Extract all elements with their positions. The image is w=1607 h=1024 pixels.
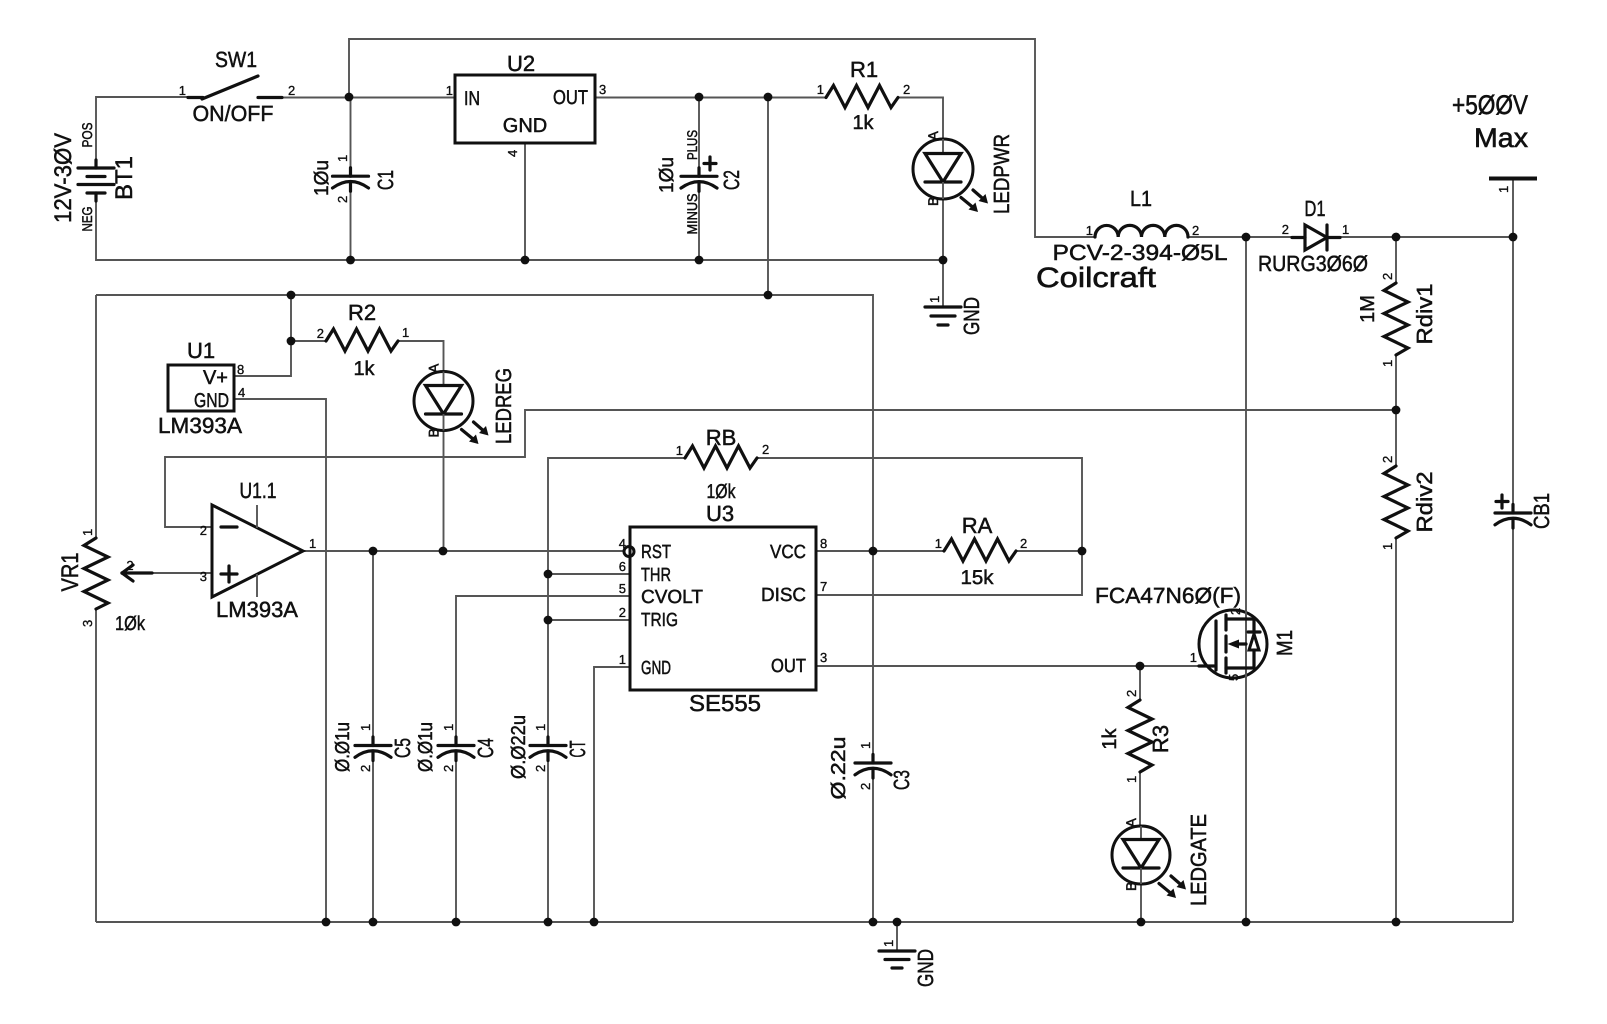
svg-text:CT: CT <box>565 741 590 758</box>
wire 12V riser x=768 <box>767 97 769 295</box>
svg-text:1: 1 <box>179 83 186 98</box>
svg-text:ON/OFF: ON/OFF <box>193 101 274 126</box>
wire U1 GND pin 4 to ground bus <box>234 399 326 922</box>
svg-text:R1: R1 <box>850 57 878 82</box>
svg-text:U2: U2 <box>507 51 535 76</box>
wire R3 top leg <box>1139 666 1141 700</box>
svg-text:RST: RST <box>641 542 671 563</box>
capacitor C1 <box>311 155 398 203</box>
wire R2 pin 1 to LEDREG anode <box>398 341 444 372</box>
svg-text:4: 4 <box>505 150 520 157</box>
svg-text:U1.1: U1.1 <box>240 478 277 503</box>
wire R1 pin 2 to LEDPWR anode <box>898 98 943 140</box>
svg-text:Rdiv1: Rdiv1 <box>1412 284 1437 345</box>
svg-text:2: 2 <box>1380 273 1395 280</box>
svg-text:C5: C5 <box>390 738 415 758</box>
wire L1 pin 2 to D1 anode <box>1188 236 1292 238</box>
wire RB pin 2 down to RA pin 2 and DISC pin 7 <box>757 458 1082 595</box>
svg-text:1: 1 <box>1124 776 1139 783</box>
junction C2 top on 12V switched rail <box>695 93 704 102</box>
svg-text:2: 2 <box>762 442 769 457</box>
svg-text:1k: 1k <box>852 112 874 134</box>
svg-text:NEG: NEG <box>79 207 95 232</box>
capacitor CB1 (polarized) <box>1495 493 1554 529</box>
svg-text:1: 1 <box>927 296 942 303</box>
svg-text:8: 8 <box>237 362 244 377</box>
svg-text:1Øk: 1Øk <box>115 613 146 635</box>
svg-text:1k: 1k <box>1099 727 1121 749</box>
potentiometer VR1 <box>57 529 152 635</box>
wire Rdiv1 top leg <box>1395 237 1397 283</box>
svg-text:3: 3 <box>820 650 827 665</box>
wire VR1 wiper to op-amp noninverting input <box>122 572 212 574</box>
svg-text:1: 1 <box>309 536 316 551</box>
junction R2 pin2 / U1 V+ node <box>287 337 296 346</box>
svg-text:5: 5 <box>619 581 626 596</box>
wire C1 bottom leg <box>350 182 352 260</box>
svg-text:2: 2 <box>1282 222 1289 237</box>
svg-text:VR1: VR1 <box>57 553 84 592</box>
wire TRIG pin 2 <box>548 619 630 621</box>
wire RB pin 1 to THR and TRIG <box>548 458 685 620</box>
wire LEDGATE cathode to ground bus <box>1140 884 1142 922</box>
wire C4 bottom leg to ground bus <box>455 754 457 922</box>
junction GND symbol tap on ground bus <box>893 918 902 927</box>
svg-text:1Øk: 1Øk <box>707 481 737 503</box>
svg-text:Ø.22u: Ø.22u <box>828 737 850 800</box>
svg-text:B: B <box>426 428 442 437</box>
svg-text:1: 1 <box>1342 222 1349 237</box>
svg-text:SE555: SE555 <box>689 690 761 716</box>
junction R2/U1 riser on 12V rail 2 <box>287 291 296 300</box>
svg-text:1Øu: 1Øu <box>311 160 333 196</box>
wire THR pin 6 <box>548 573 630 575</box>
svg-text:1: 1 <box>80 529 95 536</box>
junction LEDREG cathode on comparator output <box>439 547 448 556</box>
wire CVOLT pin 5 to C4 <box>456 596 630 745</box>
junction R3 top on 555 OUT net <box>1136 662 1145 671</box>
wire M1 drain riser and source to ground bus <box>1245 237 1247 922</box>
svg-text:1: 1 <box>446 83 453 98</box>
op-amp power chip U1 <box>158 338 245 438</box>
svg-text:2: 2 <box>335 196 350 203</box>
svg-text:VCC: VCC <box>770 542 806 563</box>
svg-text:1: 1 <box>881 940 896 947</box>
svg-text:LEDPWR: LEDPWR <box>989 134 1014 214</box>
LED LEDPWR <box>913 131 1014 215</box>
svg-text:RA: RA <box>962 513 993 538</box>
wire CB1 top leg <box>1512 237 1514 512</box>
capacitor C2 (polarized) <box>656 130 744 235</box>
svg-text:1: 1 <box>1380 360 1395 367</box>
wire op-amp inverting input feedback to Rdiv1/Rdiv2 node <box>165 410 1396 527</box>
svg-text:15k: 15k <box>961 567 995 589</box>
junction C2 bottom on GND rail <box>695 256 704 265</box>
svg-text:2: 2 <box>1228 608 1243 615</box>
wire C1 top leg <box>350 97 352 176</box>
LED LEDGATE <box>1112 814 1211 906</box>
resistor R3 <box>1099 690 1173 783</box>
junction CT on ground bus <box>544 918 553 927</box>
svg-text:Ø.Ø22u: Ø.Ø22u <box>508 715 530 779</box>
svg-text:4: 4 <box>619 536 626 551</box>
junction VCC / RA pin1 <box>869 547 878 556</box>
svg-text:GND: GND <box>641 658 671 679</box>
svg-text:L1: L1 <box>1130 186 1152 211</box>
junction U2 pin4 on GND rail <box>521 256 530 265</box>
svg-text:A: A <box>1123 818 1139 828</box>
svg-text:7: 7 <box>820 579 827 594</box>
svg-text:OUT: OUT <box>553 87 588 109</box>
svg-text:2: 2 <box>441 765 456 772</box>
svg-text:POS: POS <box>79 123 95 148</box>
wire LEDPWR cathode down to GND symbol <box>942 199 944 306</box>
svg-text:4: 4 <box>238 385 245 400</box>
svg-text:1: 1 <box>817 82 824 97</box>
wire D1 cathode to +500V node <box>1340 236 1513 238</box>
svg-text:A: A <box>426 363 442 373</box>
op-amp U1.1 <box>200 478 316 622</box>
capacitor C4 <box>415 722 498 772</box>
svg-text:1: 1 <box>402 325 409 340</box>
junction THR tap <box>544 570 553 579</box>
junction C1 bottom on GND rail <box>346 256 355 265</box>
junction C5 on ground bus <box>369 918 378 927</box>
wire Rdiv1 bottom to Rdiv2 top <box>1395 355 1397 466</box>
svg-text:GND: GND <box>503 115 547 137</box>
wire ground bus (y=922) <box>96 921 1513 923</box>
capacitor CT <box>508 715 590 779</box>
svg-text:2: 2 <box>358 765 373 772</box>
wire Rdiv2 bottom to ground bus <box>1395 538 1397 922</box>
wire C2 bottom leg <box>698 182 700 260</box>
svg-text:5: 5 <box>1226 674 1241 681</box>
svg-text:3: 3 <box>599 82 606 97</box>
svg-text:RB: RB <box>706 425 737 450</box>
junction SW1/C1/top-loop node <box>345 93 354 102</box>
wire C2 top leg <box>698 97 700 176</box>
svg-text:M1: M1 <box>1272 630 1297 656</box>
svg-text:D1: D1 <box>1305 196 1326 221</box>
wire U2 OUT to R1 pin 1 <box>595 97 826 99</box>
svg-text:1: 1 <box>676 443 683 458</box>
wire top loop from SW/C1 node over U2 to L1 pin 1 <box>349 39 1095 237</box>
resistor R1 <box>817 57 910 134</box>
svg-text:GND: GND <box>913 949 938 987</box>
svg-text:Coilcraft: Coilcraft <box>1036 262 1156 293</box>
svg-text:R2: R2 <box>348 300 376 325</box>
ground GND (bottom bus) <box>879 940 938 987</box>
svg-text:LM393A: LM393A <box>216 597 298 622</box>
svg-text:MINUS: MINUS <box>684 194 700 235</box>
wire U2 GND pin 4 leg <box>524 143 526 260</box>
junction M1 source on ground bus <box>1242 918 1251 927</box>
timer U3 <box>619 501 827 716</box>
svg-text:2: 2 <box>1380 456 1395 463</box>
wire U3 GND pin 1 to ground bus <box>594 667 630 922</box>
svg-text:Ø.Ø1u: Ø.Ø1u <box>332 722 354 772</box>
svg-text:2: 2 <box>903 82 910 97</box>
junction LEDPWR cathode / GND rail <box>939 256 948 265</box>
junction U3 GND on ground bus <box>590 918 599 927</box>
ground GND (top section) <box>925 296 984 335</box>
svg-text:OUT: OUT <box>771 656 806 677</box>
junction Rdiv1/Rdiv2 feedback node <box>1392 406 1401 415</box>
svg-text:2: 2 <box>288 83 295 98</box>
wire C5 riser from output net to ground bus <box>372 551 374 922</box>
svg-text:CVOLT: CVOLT <box>641 587 703 608</box>
junction C5 riser on comparator output <box>369 547 378 556</box>
svg-text:GND: GND <box>959 297 984 335</box>
svg-text:Ø.Ø1u: Ø.Ø1u <box>415 722 437 772</box>
battery BT1 <box>50 123 138 232</box>
wire VCC pin 8 to RA pin 1 <box>816 550 944 552</box>
resistor R2 <box>317 300 409 380</box>
wire battery POS to SW1 pin 1 <box>96 97 188 168</box>
inductor L1 <box>1036 186 1228 293</box>
svg-text:U3: U3 <box>706 501 734 526</box>
regulator U2 <box>446 51 606 157</box>
svg-text:2: 2 <box>858 783 873 790</box>
resistor RA <box>935 513 1027 589</box>
wire +500V bar leg <box>1512 179 1514 237</box>
svg-text:C1: C1 <box>373 170 398 190</box>
wire op-amp output to 555 RST <box>303 550 623 552</box>
svg-text:U1: U1 <box>187 338 215 363</box>
svg-text:C3: C3 <box>889 770 914 790</box>
svg-text:2: 2 <box>533 765 548 772</box>
switch SW1 <box>179 47 295 126</box>
wire R2 pin 2 stub <box>291 340 326 342</box>
svg-text:1: 1 <box>1086 223 1093 238</box>
svg-text:2: 2 <box>126 558 133 573</box>
svg-text:LEDGATE: LEDGATE <box>1186 814 1211 906</box>
svg-text:PLUS: PLUS <box>684 130 700 160</box>
svg-text:2: 2 <box>1124 690 1139 697</box>
svg-text:GND: GND <box>194 390 229 412</box>
wire LEDREG cathode to comparator output net <box>443 430 445 551</box>
svg-text:TRIG: TRIG <box>641 610 678 631</box>
svg-text:8: 8 <box>820 536 827 551</box>
wire RA pin 2 stub <box>1016 550 1082 552</box>
junction +500V bar / CB1 <box>1509 233 1518 242</box>
svg-text:2: 2 <box>200 523 207 538</box>
wire R3 bottom to LEDGATE anode <box>1139 772 1141 826</box>
wire rail2 to R2 / U1 V+ pin 8 <box>234 295 291 376</box>
svg-text:1: 1 <box>935 536 942 551</box>
svg-text:Max: Max <box>1474 123 1529 153</box>
svg-text:B: B <box>925 197 941 206</box>
svg-text:2: 2 <box>1192 223 1199 238</box>
svg-text:THR: THR <box>641 565 671 586</box>
junction M1 drain on boost node <box>1242 233 1251 242</box>
svg-text:LM393A: LM393A <box>158 413 242 438</box>
svg-text:FCA47N6Ø(F): FCA47N6Ø(F) <box>1095 583 1241 608</box>
wire VR1 top leg from rail2 <box>95 295 97 538</box>
svg-text:RURG3Ø6Ø: RURG3Ø6Ø <box>1258 251 1368 276</box>
capacitor C5 <box>332 722 415 772</box>
svg-text:1: 1 <box>858 742 873 749</box>
junction LEDGATE on ground bus <box>1137 918 1146 927</box>
svg-text:6: 6 <box>619 559 626 574</box>
svg-text:1: 1 <box>358 724 373 731</box>
svg-text:1M: 1M <box>1357 295 1379 323</box>
svg-text:1k: 1k <box>353 358 375 380</box>
wire 12V rail 2 (y=295) to VCC riser, down to C3 top plate <box>96 295 873 763</box>
svg-text:C2: C2 <box>719 170 744 190</box>
junction Rdiv1 top on +500V node <box>1392 233 1401 242</box>
svg-text:R3: R3 <box>1148 725 1173 753</box>
wire SW1 pin 2 to U2 IN <box>282 97 455 99</box>
svg-text:B: B <box>1123 882 1139 891</box>
junction Rdiv2 on ground bus <box>1392 918 1401 927</box>
wire ground rail (battery NEG along y=260) <box>96 193 943 260</box>
svg-text:3: 3 <box>80 620 95 627</box>
svg-text:1Øu: 1Øu <box>656 157 678 193</box>
svg-text:SW1: SW1 <box>215 47 257 72</box>
wire C3 bottom leg to ground bus <box>872 772 874 922</box>
svg-text:BT1: BT1 <box>111 156 138 200</box>
svg-text:1: 1 <box>1380 543 1395 550</box>
resistor Rdiv1 <box>1357 273 1437 367</box>
LED LEDREG <box>414 363 516 444</box>
svg-text:1: 1 <box>1190 650 1197 665</box>
capacitor C3 <box>828 737 914 800</box>
+500V Max supply bar <box>1452 90 1537 193</box>
svg-text:1: 1 <box>619 652 626 667</box>
resistor RB <box>676 425 769 503</box>
svg-text:2: 2 <box>317 326 324 341</box>
svg-text:CB1: CB1 <box>1529 493 1554 529</box>
junction TRIG tap <box>544 616 553 625</box>
svg-text:DISC: DISC <box>761 585 806 606</box>
junction C4 on ground bus <box>452 918 461 927</box>
wire ground-symbol tap on bus <box>896 922 898 950</box>
junction C3 on ground bus <box>869 918 878 927</box>
junction 12V riser on rail 2 <box>764 291 773 300</box>
svg-text:3: 3 <box>200 569 207 584</box>
wire 555 OUT pin 3 to R3 and M1 gate <box>816 665 1199 667</box>
svg-text:2: 2 <box>619 605 626 620</box>
svg-text:IN: IN <box>464 88 480 110</box>
svg-text:1: 1 <box>441 724 456 731</box>
svg-text:1: 1 <box>1496 186 1511 193</box>
svg-text:+5ØØV: +5ØØV <box>1452 90 1528 120</box>
junction U1 GND on ground bus <box>322 918 331 927</box>
svg-text:12V-3ØV: 12V-3ØV <box>50 133 77 223</box>
svg-text:V+: V+ <box>203 367 228 389</box>
wire CT riser TRIG to ground bus <box>547 620 549 922</box>
svg-text:Rdiv2: Rdiv2 <box>1412 472 1437 533</box>
svg-text:A: A <box>925 131 941 141</box>
wire VR1 bottom leg to ground bus <box>95 609 97 922</box>
svg-text:LEDREG: LEDREG <box>491 368 516 444</box>
wire CB1 bottom leg <box>1512 522 1514 922</box>
svg-text:C4: C4 <box>473 738 498 758</box>
junction 12V riser on top rail <box>764 93 773 102</box>
svg-text:1: 1 <box>533 724 548 731</box>
svg-text:2: 2 <box>1020 536 1027 551</box>
svg-text:1: 1 <box>335 155 350 162</box>
MOSFET M1 <box>1095 583 1297 681</box>
diode D1 <box>1258 196 1368 276</box>
resistor Rdiv2 <box>1380 456 1437 550</box>
junction RA pin2 / RB / DISC node <box>1078 547 1087 556</box>
